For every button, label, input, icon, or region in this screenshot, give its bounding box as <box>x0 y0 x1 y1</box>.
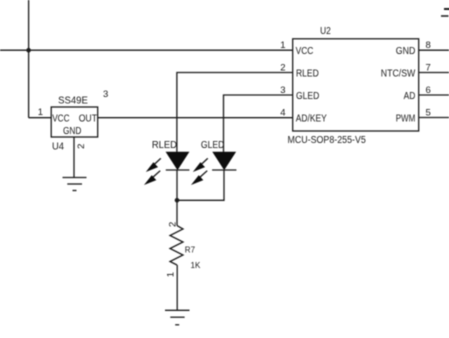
svg-text:R7: R7 <box>185 245 196 254</box>
mcu U2 body <box>293 39 419 131</box>
svg-text:1: 1 <box>280 40 285 51</box>
wire vertical from top edge down to SS49E pin 1 row <box>28 0 30 118</box>
svg-text:SS49E: SS49E <box>58 96 88 107</box>
svg-text:AD: AD <box>404 91 416 102</box>
LED GLED emission arrows <box>193 158 208 183</box>
svg-text:U2: U2 <box>320 26 331 37</box>
node junction at VCC rail <box>26 48 31 53</box>
ground partial at top-right edge <box>441 9 449 16</box>
svg-text:GND: GND <box>396 46 416 57</box>
svg-text:GLED: GLED <box>201 140 224 151</box>
wire U4 GND to ground <box>73 137 75 178</box>
ground (R7) <box>165 310 190 325</box>
svg-text:PWM: PWM <box>396 113 416 124</box>
svg-text:4: 4 <box>280 108 285 119</box>
svg-text:U4: U4 <box>52 142 64 153</box>
svg-text:VCC: VCC <box>296 46 314 57</box>
wire U2 pin 7 NTC/SW <box>419 72 449 74</box>
svg-text:RLED: RLED <box>296 68 319 79</box>
wire RLED cathode down to junction <box>176 170 178 200</box>
svg-text:MCU-SOP8-255-V5: MCU-SOP8-255-V5 <box>288 135 367 146</box>
wire OUT to U2 AD/KEY <box>98 117 293 119</box>
svg-text:GLED: GLED <box>296 91 319 102</box>
svg-text:1: 1 <box>38 107 43 118</box>
svg-text:1K: 1K <box>191 261 201 270</box>
svg-text:RLED: RLED <box>152 140 177 151</box>
svg-text:GND: GND <box>63 126 81 137</box>
wire junction to R7 <box>176 200 178 225</box>
svg-text:VCC: VCC <box>52 113 69 124</box>
wire VCC rail (left edge to U2 pin 1) <box>0 49 293 51</box>
svg-text:AD/KEY: AD/KEY <box>296 113 327 124</box>
node junction LED cathodes <box>175 198 180 203</box>
LED RLED emission arrows <box>146 158 161 183</box>
LED GLED (triangle + cathode bar) <box>212 152 236 170</box>
svg-text:3: 3 <box>103 89 108 100</box>
wire GLED cathode down and left to junction <box>177 170 224 200</box>
wire U2 pin 6 AD <box>419 94 449 96</box>
resistor R7 zigzag <box>170 226 183 265</box>
ground (U4) <box>63 178 87 191</box>
svg-text:OUT: OUT <box>79 113 97 124</box>
svg-text:NTC/SW: NTC/SW <box>381 68 416 79</box>
wire U2 pin 5 PWM <box>419 117 449 119</box>
wire U2 pin 8 GND <box>419 49 449 51</box>
wire U2 pin 2 to RLED <box>177 73 293 153</box>
hall sensor U4 body <box>51 107 97 137</box>
svg-text:2: 2 <box>76 144 87 149</box>
LED RLED (triangle + cathode bar) <box>166 152 190 170</box>
svg-text:1: 1 <box>165 272 176 277</box>
wire U2 pin 3 to GLED <box>224 95 293 152</box>
wire to SS49E pin 1 <box>29 117 52 119</box>
wire R7 to ground <box>176 265 178 310</box>
